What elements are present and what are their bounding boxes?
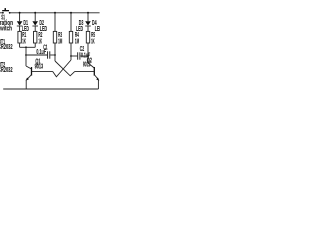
LED D3	[76, 13, 91, 33]
switch S1	[1, 8, 10, 21]
wire collector bus H1	[20, 46, 36, 48]
svg-text:LED: LED	[76, 26, 83, 33]
resistor R5 1K	[86, 31, 95, 63]
battery BT1 CR2032 label (symbol cut off at edge)	[0, 39, 13, 51]
svg-text:switch: switch	[0, 25, 12, 32]
svg-text:1K: 1K	[91, 38, 95, 45]
node rail-D2	[34, 12, 36, 14]
node rail-D1	[19, 12, 21, 14]
transistor Q2 9013	[75, 58, 100, 89]
resistor R1 1K	[18, 31, 26, 47]
LED D1	[17, 13, 29, 33]
resistor R4 1M	[69, 13, 79, 60]
wire C1 left	[26, 54, 47, 56]
wire Q1 collector vertical	[25, 47, 27, 66]
wire top rail left stub	[0, 12, 3, 14]
resistor R3 1M	[53, 13, 62, 61]
node rail-R3	[54, 12, 56, 14]
wire Q1 collector diagonal	[26, 66, 32, 69]
node C2-Q2 collector	[87, 55, 89, 57]
capacitor C1 0.1uF	[36, 44, 49, 58]
svg-text:1M: 1M	[58, 38, 62, 45]
wire ground rail	[3, 88, 98, 90]
node R4-C2 line	[70, 55, 72, 57]
svg-text:LED: LED	[95, 26, 100, 33]
svg-text:CR2032: CR2032	[0, 67, 13, 74]
transistor Q1 9013	[26, 58, 53, 89]
node H1-Q1 collector	[25, 46, 27, 48]
LED D4 label (branch cut off at right edge)	[92, 20, 102, 33]
wire cross-couple R3 to Q2 base	[55, 61, 75, 76]
wire cross-couple R4 to Q1 base	[53, 60, 71, 77]
svg-text:9013: 9013	[83, 61, 91, 68]
label vibration switch (clipped at left edge)	[0, 20, 13, 33]
svg-text:0.1uF: 0.1uF	[36, 49, 46, 56]
node rail-R4	[70, 12, 72, 14]
battery BT2 CR2032 label (symbol cut off at edge)	[0, 62, 13, 74]
svg-text:9013: 9013	[35, 64, 44, 71]
wire top rail	[10, 12, 100, 14]
svg-text:1M: 1M	[75, 38, 79, 45]
wire C1 right to R3	[50, 54, 55, 56]
capacitor C2 0.1uF	[71, 46, 90, 60]
svg-text:CR2032: CR2032	[0, 44, 13, 51]
node rail-D3	[87, 12, 89, 14]
node Q1 collector-C1 line	[25, 54, 27, 56]
svg-text:1K: 1K	[22, 38, 26, 45]
LED D2	[32, 13, 47, 33]
resistor R2 1K	[34, 31, 43, 47]
svg-text:1K: 1K	[38, 38, 42, 45]
node C1-R3	[54, 54, 56, 56]
wire Q2 collector diagonal	[88, 63, 94, 68]
